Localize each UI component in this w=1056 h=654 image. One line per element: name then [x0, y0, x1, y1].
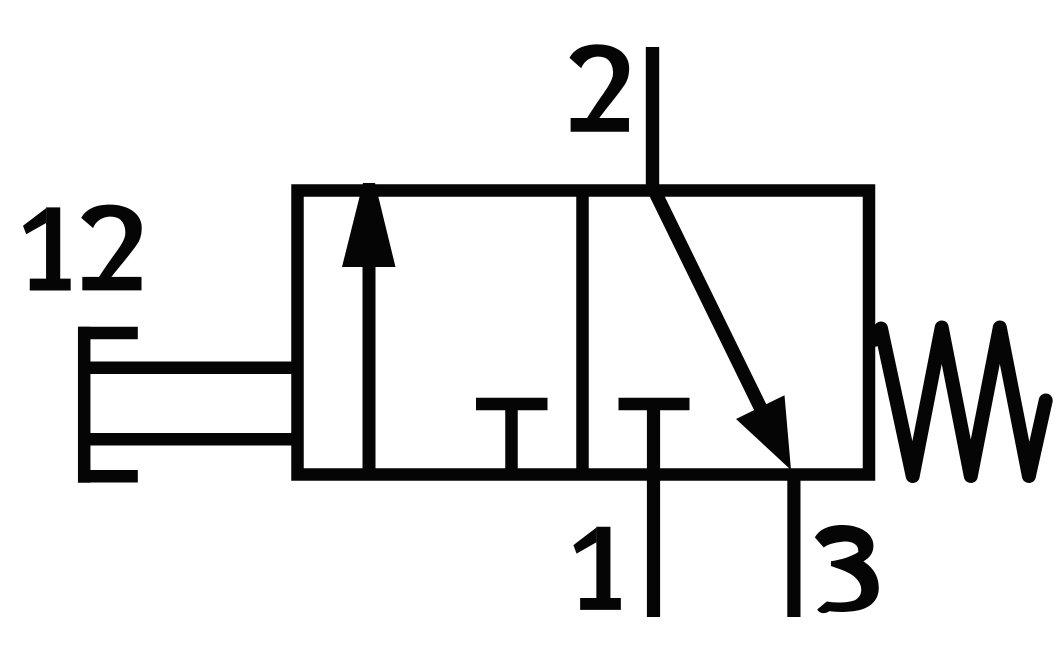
port 1 line — [647, 404, 660, 617]
pilot bottom rail — [78, 433, 295, 446]
label 12 digit 1 (pilot port) — [23, 207, 71, 290]
label 3 (exhaust port) — [815, 525, 879, 613]
pilot top rail — [78, 362, 295, 375]
blocked port T stem (left chamber) — [505, 404, 518, 475]
label 1 (bottom port) — [573, 527, 620, 610]
port 2 line — [646, 47, 659, 192]
diagonal arrowhead (to port 3) — [736, 395, 791, 470]
pilot bracket vertical — [78, 327, 91, 483]
blocked port T bar (right chamber, port 1) — [619, 398, 690, 411]
flow arrow shaft (left chamber, up) — [363, 262, 376, 475]
diagonal flow path 2 to 3 (right chamber) — [655, 191, 766, 417]
position divider line — [576, 191, 589, 475]
port 3 line — [787, 472, 800, 617]
up arrowhead (left chamber) — [342, 183, 396, 267]
valve body (two-position box) — [298, 191, 870, 475]
spring return — [874, 328, 1046, 477]
pilot bracket top arm — [78, 327, 138, 340]
blocked port T bar (left chamber) — [476, 398, 548, 411]
pilot bracket bottom arm — [78, 470, 138, 483]
pilot actuator (12) — [78, 327, 295, 483]
label 2 (top port) — [570, 44, 630, 131]
label 12 digit 2 (pilot port) — [81, 205, 141, 291]
